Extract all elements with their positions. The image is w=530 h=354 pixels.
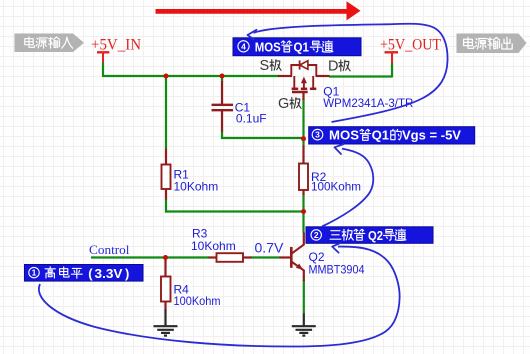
svg-text:G: G — [278, 96, 289, 112]
svg-text:+5V_IN: +5V_IN — [91, 37, 141, 54]
svg-text:4: 4 — [241, 41, 246, 51]
svg-text:+5V_OUT: +5V_OUT — [380, 37, 441, 54]
svg-text:3: 3 — [315, 130, 320, 140]
svg-text:Q1: Q1 — [294, 39, 310, 54]
svg-text:0.1uF: 0.1uF — [236, 111, 267, 125]
svg-text:10Kohm: 10Kohm — [191, 239, 236, 253]
svg-text:Q2: Q2 — [368, 228, 383, 243]
svg-text:S: S — [260, 58, 270, 74]
svg-text:MOS: MOS — [255, 39, 281, 54]
svg-text:MMBT3904: MMBT3904 — [309, 263, 365, 277]
svg-text:Q1: Q1 — [372, 128, 390, 143]
svg-text:100Kohm: 100Kohm — [311, 179, 361, 193]
svg-text:(: ( — [88, 266, 93, 281]
svg-text:MOS: MOS — [329, 128, 359, 143]
svg-text:): ) — [125, 266, 129, 281]
svg-text:Vgs = -5V: Vgs = -5V — [402, 128, 461, 143]
svg-text:Control: Control — [89, 242, 130, 257]
svg-text:3.3V: 3.3V — [95, 266, 123, 281]
svg-text:D: D — [328, 59, 338, 75]
svg-text:2: 2 — [314, 230, 319, 240]
svg-text:100Kohm: 100Kohm — [174, 294, 221, 308]
svg-text:10Kohm: 10Kohm — [174, 179, 219, 193]
svg-text:0.7V: 0.7V — [255, 240, 284, 256]
svg-text:1: 1 — [32, 268, 37, 278]
